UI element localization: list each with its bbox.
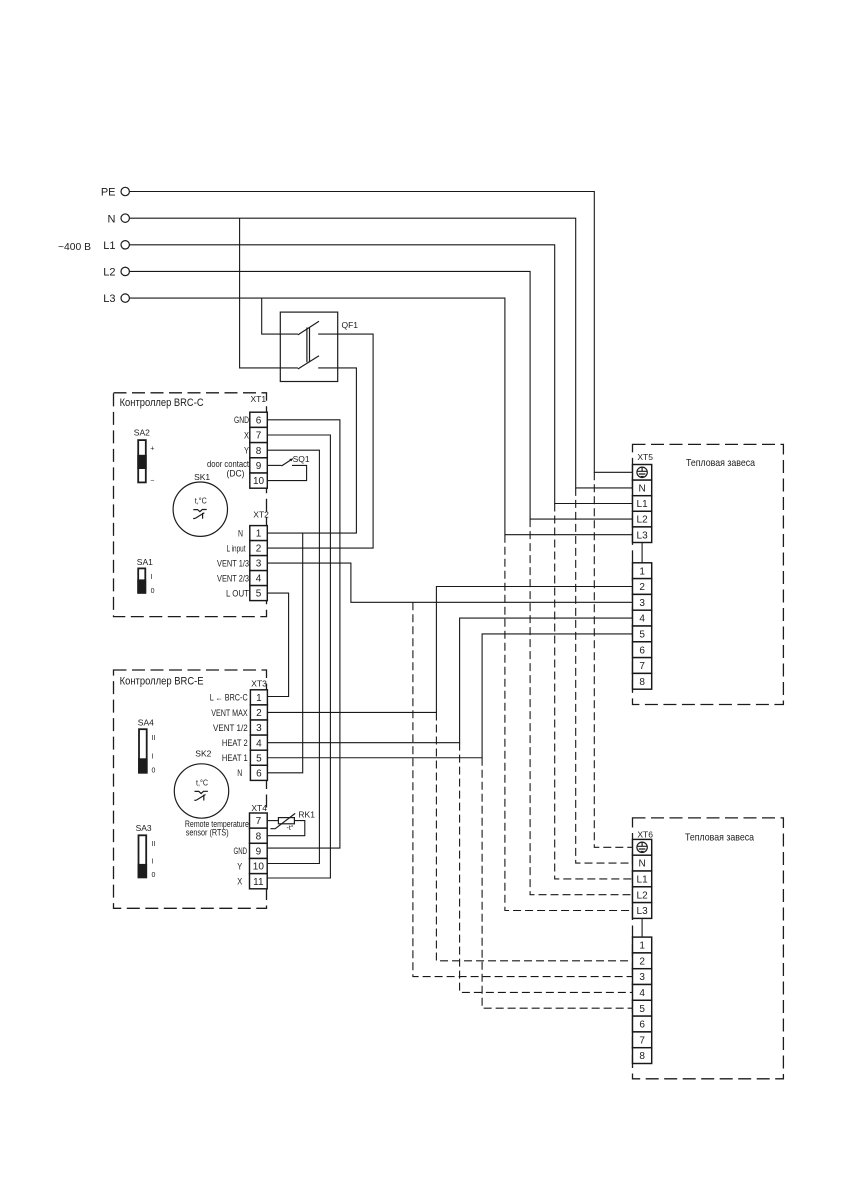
svg-text:Y: Y [237, 861, 242, 871]
svg-text:HEAT 2: HEAT 2 [222, 738, 248, 748]
node L1 [103, 240, 129, 252]
svg-text:5: 5 [256, 589, 262, 600]
svg-text:N: N [638, 859, 645, 870]
wire XT1-6 GND to XT4-9 [267, 420, 340, 848]
svg-text:Контроллер BRC-E: Контроллер BRC-E [120, 676, 204, 688]
switch SA3 [136, 823, 156, 879]
svg-text:Тепловая завеса: Тепловая завеса [685, 831, 754, 843]
terminal block XT3 [250, 679, 267, 781]
svg-text:1: 1 [639, 566, 645, 577]
svg-text:L3: L3 [637, 906, 649, 917]
svg-text:N: N [108, 213, 116, 225]
svg-text:3: 3 [639, 972, 645, 983]
svg-text:4: 4 [256, 738, 262, 749]
heat curtain 2 box [633, 818, 784, 1079]
svg-text:VENT 1/2: VENT 1/2 [213, 723, 248, 733]
wire PE to XT6-PE (dashed) [594, 472, 632, 847]
wire XT1-8 Y to XT4-10 [267, 450, 319, 863]
wire N rail to XT5-N [129, 218, 632, 488]
wire N to XT6-N (dashed) [576, 488, 633, 863]
svg-text:4: 4 [639, 988, 645, 999]
svg-text:XT2: XT2 [253, 510, 269, 520]
svg-text:7: 7 [256, 431, 262, 442]
svg-text:11: 11 [253, 877, 264, 888]
svg-text:3: 3 [639, 598, 645, 609]
svg-text:1: 1 [256, 529, 262, 540]
node N [108, 213, 130, 225]
svg-text:Y: Y [244, 446, 249, 456]
svg-text:8: 8 [639, 677, 645, 688]
wire HEAT 2 to XT6-4 (dashed) [460, 743, 633, 993]
svg-text:PE: PE [101, 187, 116, 199]
svg-text:I: I [152, 859, 154, 866]
wire XT3-2 VENT MAX to XT5-2 [267, 587, 632, 713]
svg-text:8: 8 [639, 1051, 645, 1062]
svg-text:10: 10 [253, 476, 265, 487]
svg-text:GND: GND [234, 846, 248, 856]
svg-text:QF1: QF1 [342, 320, 359, 330]
svg-text:I: I [152, 753, 154, 760]
svg-text:6: 6 [256, 768, 262, 779]
svg-text:XT1: XT1 [251, 394, 267, 404]
svg-text:Контроллер BRC-C: Контроллер BRC-C [120, 397, 204, 409]
svg-text:0: 0 [152, 768, 156, 775]
svg-text:VENT 2/3: VENT 2/3 [217, 574, 249, 584]
svg-text:Тепловая завеса: Тепловая завеса [686, 457, 755, 469]
svg-text:L OUT: L OUT [226, 589, 249, 599]
svg-text:L2: L2 [637, 515, 649, 526]
controller BRC-C box [114, 393, 267, 617]
thermostat SK2 [174, 748, 228, 818]
svg-text:3: 3 [256, 723, 262, 734]
wire N rail to QF1 [240, 218, 298, 368]
svg-text:9: 9 [256, 847, 262, 858]
wire XT6 L3 to XT6-1 link [641, 918, 643, 937]
svg-text:3: 3 [256, 559, 262, 570]
svg-text:0: 0 [152, 872, 156, 879]
svg-text:4: 4 [256, 574, 262, 585]
wire QF1 L3 out to XT2-2 [267, 334, 373, 548]
svg-text:2: 2 [639, 956, 645, 967]
wire PE rail to XT5-PE [129, 192, 632, 473]
switch SA1 [137, 557, 155, 595]
svg-text:~400 В: ~400 В [58, 241, 91, 253]
svg-text:RK1: RK1 [298, 810, 315, 820]
svg-text:6: 6 [256, 415, 262, 426]
svg-text:6: 6 [639, 1020, 645, 1031]
terminal block XT4 [250, 803, 268, 889]
svg-text:t,°C: t,°C [195, 497, 207, 506]
thermostat SK1 [173, 472, 227, 536]
svg-text:-t°: -t° [287, 824, 294, 832]
svg-text:7: 7 [639, 661, 645, 672]
switch SQ1 door contact [267, 454, 310, 481]
terminal block XT5 control [633, 563, 652, 689]
terminal block XT1 [250, 394, 267, 488]
svg-text:L1: L1 [637, 499, 649, 510]
wire XT3-4 HEAT 2 to XT5-4 [267, 618, 632, 743]
wire QF1 N out to XT2-1 [267, 368, 356, 533]
svg-text:N: N [237, 768, 242, 778]
node L3 [103, 293, 129, 305]
wire L3 rail to QF1 [262, 298, 298, 334]
svg-text:SK2: SK2 [195, 748, 211, 758]
svg-text:L2: L2 [637, 890, 649, 901]
svg-text:5: 5 [639, 1004, 645, 1015]
svg-text:SA3: SA3 [136, 823, 152, 833]
svg-text:L ← BRC-C: L ← BRC-C [210, 693, 248, 703]
svg-text:6: 6 [639, 645, 645, 656]
svg-text:sensor (RTS): sensor (RTS) [186, 828, 229, 838]
switch SA2 [134, 428, 155, 485]
wire HEAT 1 to XT6-5 (dashed) [482, 758, 632, 1008]
wire XT2-5 L OUT to XT3-1 [267, 593, 288, 696]
svg-text:L1: L1 [103, 240, 115, 252]
heat curtain 1 box [633, 444, 784, 704]
terminal block XT6 control [633, 937, 652, 1063]
svg-text:7: 7 [256, 816, 262, 827]
svg-text:7: 7 [639, 1035, 645, 1046]
svg-text:XT4: XT4 [251, 803, 267, 813]
svg-text:SA1: SA1 [137, 557, 153, 567]
svg-text:SA2: SA2 [134, 428, 150, 438]
svg-text:2: 2 [256, 544, 262, 555]
node PE [101, 187, 130, 199]
wire XT5 L3 to XT5-1 link [641, 543, 643, 563]
wire L1 to XT6-L1 (dashed) [555, 504, 633, 879]
svg-text:II: II [152, 841, 156, 848]
wire L2 to XT6-L2 (dashed) [530, 519, 632, 895]
svg-text:SQ1: SQ1 [293, 454, 310, 464]
svg-text:door contact: door contact [207, 459, 249, 469]
wire L1 rail to XT5-L1 [129, 245, 632, 504]
switch SA4 [138, 717, 156, 774]
svg-text:5: 5 [256, 753, 262, 764]
wire XT2-3 VENT 1/3 to XT5-3 [267, 563, 632, 602]
resistor RK1 (RTS thermistor) [267, 810, 315, 836]
controller BRC-E box [114, 670, 267, 908]
svg-text:+: + [150, 445, 154, 452]
svg-text:L3: L3 [103, 293, 115, 305]
svg-text:5: 5 [639, 630, 645, 641]
svg-text:X: X [244, 430, 249, 440]
svg-text:SA4: SA4 [138, 717, 154, 727]
breaker QF1 [280, 312, 358, 381]
svg-text:L3: L3 [637, 530, 649, 541]
svg-text:4: 4 [639, 614, 645, 625]
svg-text:II: II [152, 735, 156, 742]
svg-text:(DC): (DC) [227, 468, 245, 478]
svg-text:10: 10 [253, 862, 265, 873]
svg-text:0: 0 [151, 588, 155, 595]
svg-text:GND: GND [234, 415, 249, 425]
svg-text:9: 9 [256, 461, 262, 472]
wire VENT 1/3 to XT6-3 (dashed) [413, 602, 633, 976]
svg-text:VENT MAX: VENT MAX [211, 708, 248, 718]
svg-text:L input: L input [227, 544, 246, 554]
wire N branch XT2-1 to XT3-6 [267, 533, 302, 773]
wire VENT MAX to XT6-2 (dashed) [436, 712, 632, 960]
svg-text:−: − [150, 477, 154, 484]
svg-text:8: 8 [256, 831, 262, 842]
wire XT3-5 HEAT 1 to XT5-5 [267, 634, 632, 758]
node L2 [103, 267, 129, 279]
svg-text:8: 8 [256, 446, 262, 457]
wire L2 rail to XT5-L2 [129, 271, 632, 519]
svg-text:XT5: XT5 [637, 452, 653, 462]
wire L3 rail to XT5-L3 [129, 298, 632, 535]
terminal block XT6 power [633, 829, 654, 918]
svg-text:L1: L1 [637, 875, 649, 886]
terminal block XT5 power [633, 452, 654, 542]
svg-text:X: X [237, 876, 242, 886]
svg-text:HEAT 1: HEAT 1 [222, 753, 248, 763]
svg-text:1: 1 [639, 941, 645, 952]
svg-text:SK1: SK1 [194, 472, 210, 482]
svg-text:VENT 1/3: VENT 1/3 [217, 559, 249, 569]
svg-text:2: 2 [639, 582, 645, 593]
svg-text:N: N [638, 484, 645, 495]
svg-text:t,°C: t,°C [196, 778, 208, 787]
svg-text:I: I [151, 574, 153, 581]
svg-text:1: 1 [256, 693, 262, 704]
wire L3 to XT6-L3 (dashed) [505, 535, 633, 911]
svg-text:2: 2 [256, 708, 262, 719]
svg-text:N: N [238, 529, 243, 539]
terminal block XT2 [250, 510, 269, 601]
wire XT1-7 X to XT4-11 [267, 435, 330, 878]
svg-text:L2: L2 [103, 267, 115, 279]
svg-text:XT3: XT3 [251, 679, 267, 689]
svg-text:XT6: XT6 [637, 829, 653, 839]
